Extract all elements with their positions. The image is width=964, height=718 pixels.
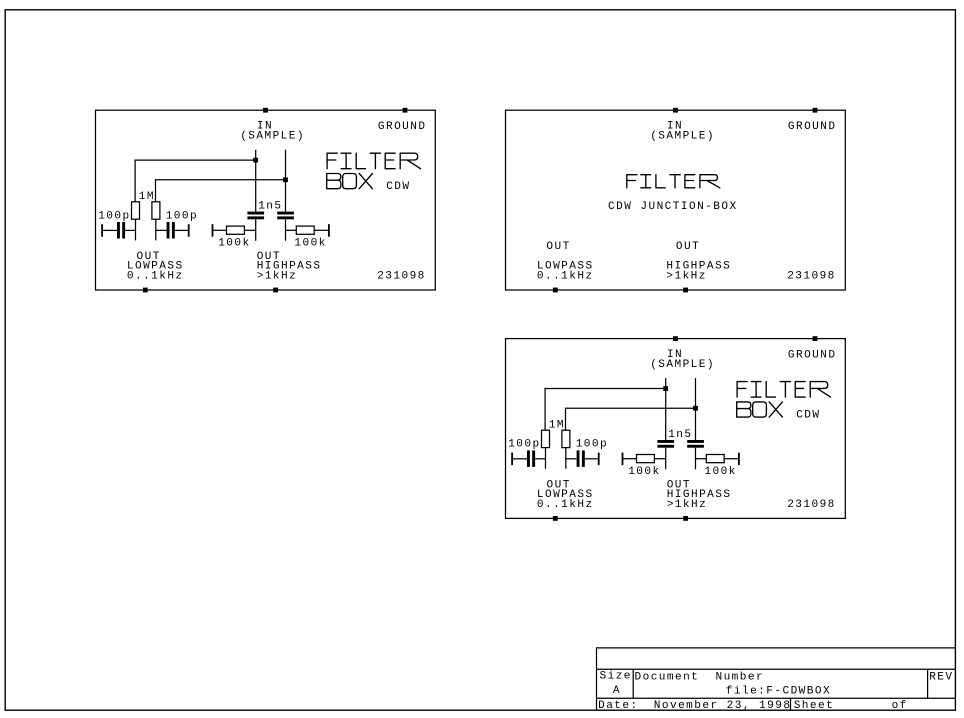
svg-text:Size: Size (600, 671, 632, 683)
svg-text:100k: 100k (628, 466, 660, 478)
capacitor 100p left: pin tick (box 1, top-left FILTER BOX) (101, 224, 103, 237)
title FILTER (box 2) (627, 175, 720, 188)
pin dot IN (box 3, middle-right FILTER BOX) (673, 336, 678, 341)
resistor 100k right: lead from node (box 1, top-left FILTER BOX) (286, 229, 297, 231)
capacitor 100p left: plate 2 (box 3, middle-right FILTER BOX) (532, 450, 535, 467)
wire below 1M right (box 3, middle-right FILTER BOX) (565, 448, 567, 469)
svg-text:231098: 231098 (377, 271, 426, 283)
resistor 100k left: lead (box 3, middle-right FILTER BOX) (623, 458, 637, 460)
pin dot OUT HIGHPASS (box 1, top-left FILTER BOX) (273, 288, 278, 293)
wire below 1n5 right (box 3, middle-right FILTER BOX) (695, 448, 697, 470)
resistor 100k left: pin tick (box 3, middle-right FILTER BOX) (622, 453, 624, 466)
title BOX (box 3, middle-right FILTER BOX) (737, 402, 783, 417)
capacitor 100p right: pin tick (box 1, top-left FILTER BOX) (188, 224, 190, 237)
junction dot net B (box 1, top-left FILTER BOX) (283, 177, 288, 182)
capacitor 100p left: lead (box 3, middle-right FILTER BOX) (512, 458, 527, 460)
title block divider Size/Document (632, 669, 634, 698)
wire IN stub left (box 1, top-left FILTER BOX) (255, 150, 257, 212)
pin dot OUT LOWPASS (box 3, middle-right FILTER BOX) (553, 516, 558, 521)
svg-text:November 23, 1998: November 23, 1998 (654, 700, 792, 712)
pin dot OUT LOWPASS (box 1, top-left FILTER BOX) (143, 288, 148, 293)
wire IN stub left (box 3, middle-right FILTER BOX) (665, 378, 667, 440)
svg-text:CDW: CDW (796, 410, 820, 422)
resistor 1M left body (box 1, top-left FILTER BOX) (132, 202, 140, 219)
resistor 1M right body (box 1, top-left FILTER BOX) (152, 202, 160, 219)
svg-text:A: A (613, 685, 621, 697)
resistor 100k left: body (box 3, middle-right FILTER BOX) (637, 455, 655, 463)
capacitor 100p right: plate 2 (box 3, middle-right FILTER BOX) (582, 450, 585, 467)
capacitor 1n5 left: plate 1 (box 3, middle-right FILTER BOX) (657, 440, 674, 443)
title block row line (below empty row) (597, 668, 956, 670)
capacitor 100p right: plate 2 (box 1, top-left FILTER BOX) (172, 222, 175, 239)
title block divider REV (927, 669, 929, 698)
svg-text:GROUND: GROUND (788, 349, 837, 361)
junction dot net A (box 3, middle-right FILTER BOX) (663, 386, 668, 391)
svg-text:REV: REV (929, 672, 953, 684)
resistor 100k right: body (box 1, top-left FILTER BOX) (296, 226, 314, 234)
svg-text:100k: 100k (218, 238, 250, 250)
wire below 1n5 left (box 3, middle-right FILTER BOX) (665, 448, 667, 470)
resistor 100k right: lead (box 3, middle-right FILTER BOX) (724, 458, 739, 460)
svg-text:OUT: OUT (546, 241, 570, 253)
capacitor 100p right: plate 1 (box 1, top-left FILTER BOX) (167, 222, 170, 239)
svg-text:CDW JUNCTION-BOX: CDW JUNCTION-BOX (608, 201, 738, 213)
wire net A (to 1M left) (box 3, middle-right FILTER BOX) (545, 389, 666, 431)
pin dot OUT HIGHPASS (box 2) (683, 288, 688, 293)
svg-text:100k: 100k (294, 238, 326, 250)
svg-text:Document Number: Document Number (635, 671, 765, 683)
svg-text:231098: 231098 (787, 271, 836, 283)
capacitor 1n5 right: plate 2 (box 1, top-left FILTER BOX) (277, 216, 294, 219)
svg-text:Sheet: Sheet (794, 700, 835, 712)
svg-text:231098: 231098 (787, 499, 836, 511)
resistor 100k left: lead to node (box 1, top-left FILTER BOX) (244, 229, 255, 231)
wire IN stub right (box 1, top-left FILTER BOX) (285, 150, 287, 212)
resistor 100k right: body (box 3, middle-right FILTER BOX) (706, 455, 724, 463)
box frame (box 2, top-right FILTER junction box) (506, 110, 846, 290)
capacitor 100p right: lead from 1M (box 1, top-left FILTER BOX) (156, 229, 167, 231)
capacitor 100p right: pin tick (box 3, middle-right FILTER BOX) (598, 453, 600, 466)
svg-text:100p: 100p (98, 210, 130, 222)
svg-text:>1kHz: >1kHz (667, 499, 708, 511)
pin dot OUT HIGHPASS (box 3, middle-right FILTER BOX) (683, 516, 688, 521)
svg-text:100k: 100k (704, 466, 736, 478)
capacitor 100p right: lead (box 3, middle-right FILTER BOX) (585, 458, 598, 460)
svg-text:0..1kHz: 0..1kHz (537, 271, 594, 283)
svg-text:1n5: 1n5 (258, 201, 282, 213)
svg-text:(SAMPLE): (SAMPLE) (650, 359, 715, 371)
capacitor 1n5 right: plate 1 (box 3, middle-right FILTER BOX) (687, 440, 704, 443)
title FILTER (box 3, middle-right FILTER BOX) (737, 382, 830, 398)
capacitor 100p right: lead from 1M (box 3, middle-right FILTER BOX) (566, 458, 577, 460)
title block outline (597, 648, 956, 710)
capacitor 100p left: plate 2 (box 1, top-left FILTER BOX) (122, 222, 125, 239)
pin dot GROUND (box 3, middle-right FILTER BOX) (813, 336, 818, 341)
title block row line (above date row) (597, 697, 956, 699)
wire below 1n5 left (box 1, top-left FILTER BOX) (255, 219, 257, 241)
capacitor 100p left: lead (box 1, top-left FILTER BOX) (102, 229, 117, 231)
svg-text:>1kHz: >1kHz (257, 271, 298, 283)
svg-text:100p: 100p (508, 439, 540, 451)
resistor 100k right: pin tick (box 3, middle-right FILTER BOX) (738, 453, 740, 466)
box frame (box 3, middle-right FILTER BOX) (506, 339, 846, 519)
capacitor 1n5 left: plate 2 (box 1, top-left FILTER BOX) (247, 216, 264, 219)
title FILTER (box 1, top-left FILTER BOX) (327, 153, 420, 169)
svg-text:>1kHz: >1kHz (666, 271, 707, 283)
resistor 100k left: body (box 1, top-left FILTER BOX) (227, 226, 245, 234)
resistor 100k right: lead from node (box 3, middle-right FILTER BOX) (696, 458, 707, 460)
capacitor 1n5 right: plate 2 (box 3, middle-right FILTER BOX) (687, 445, 704, 448)
title BOX (box 1, top-left FILTER BOX) (327, 174, 373, 189)
capacitor 100p right: plate 1 (box 3, middle-right FILTER BOX) (577, 450, 580, 467)
capacitor 100p left: plate 1 (box 3, middle-right FILTER BOX) (527, 450, 530, 467)
svg-text:100p: 100p (166, 210, 198, 222)
resistor 1M right body (box 3, middle-right FILTER BOX) (562, 430, 570, 447)
capacitor 100p left: plate 1 (box 1, top-left FILTER BOX) (117, 222, 120, 239)
wire net B (to 1M right) (box 3, middle-right FILTER BOX) (566, 408, 696, 430)
capacitor 100p left: pin tick (box 3, middle-right FILTER BOX) (511, 453, 513, 466)
title block divider Date/Sheet (790, 698, 792, 710)
capacitor 100p left: lead to 1M (box 1, top-left FILTER BOX) (125, 229, 135, 231)
pin dot OUT LOWPASS (box 2) (553, 288, 558, 293)
svg-text:file:F-CDWBOX: file:F-CDWBOX (726, 686, 831, 698)
capacitor 1n5 left: plate 1 (box 1, top-left FILTER BOX) (247, 212, 264, 215)
resistor 100k left: lead (box 1, top-left FILTER BOX) (213, 229, 227, 231)
svg-text:1n5: 1n5 (668, 429, 692, 441)
capacitor 100p left: lead to 1M (box 3, middle-right FILTER BOX) (535, 458, 545, 460)
wire below 1M left (box 1, top-left FILTER BOX) (135, 219, 137, 240)
wire below 1M right (box 1, top-left FILTER BOX) (155, 219, 157, 240)
wire below 1n5 right (box 1, top-left FILTER BOX) (285, 219, 287, 241)
wire below 1M left (box 3, middle-right FILTER BOX) (545, 448, 547, 469)
resistor 100k right: lead (box 1, top-left FILTER BOX) (314, 229, 329, 231)
capacitor 100p right: lead (box 1, top-left FILTER BOX) (175, 229, 188, 231)
svg-text:of: of (892, 700, 908, 712)
resistor 1M left body (box 3, middle-right FILTER BOX) (542, 430, 550, 447)
svg-text:CDW: CDW (386, 181, 410, 193)
junction dot net B (box 3, middle-right FILTER BOX) (693, 406, 698, 411)
pin dot IN (box 2) (673, 108, 678, 113)
svg-text:OUT: OUT (676, 241, 700, 253)
svg-text:GROUND: GROUND (788, 121, 837, 133)
capacitor 1n5 left: plate 2 (box 3, middle-right FILTER BOX) (657, 445, 674, 448)
resistor 100k left: lead to node (box 3, middle-right FILTER BOX) (654, 458, 665, 460)
svg-text:100p: 100p (576, 439, 608, 451)
resistor 100k left: pin tick (box 1, top-left FILTER BOX) (212, 224, 214, 237)
wire net B (to 1M right) (box 1, top-left FILTER BOX) (156, 180, 286, 202)
svg-text:GROUND: GROUND (378, 121, 427, 133)
pin dot IN (box 1, top-left FILTER BOX) (263, 108, 268, 113)
pin dot GROUND (box 1, top-left FILTER BOX) (403, 108, 408, 113)
svg-text:(SAMPLE): (SAMPLE) (650, 131, 715, 143)
junction dot net A (box 1, top-left FILTER BOX) (253, 158, 258, 163)
svg-text:0..1kHz: 0..1kHz (537, 499, 594, 511)
wire IN stub right (box 3, middle-right FILTER BOX) (695, 378, 697, 440)
svg-text:0..1kHz: 0..1kHz (127, 271, 184, 283)
svg-text:Date:: Date: (598, 700, 639, 712)
pin dot GROUND (box 2) (813, 108, 818, 113)
wire net A (to 1M left) (box 1, top-left FILTER BOX) (135, 160, 256, 202)
resistor 100k right: pin tick (box 1, top-left FILTER BOX) (328, 224, 330, 237)
svg-text:(SAMPLE): (SAMPLE) (240, 131, 305, 143)
box frame (box 1, top-left FILTER BOX) (96, 110, 436, 290)
capacitor 1n5 right: plate 1 (box 1, top-left FILTER BOX) (277, 212, 294, 215)
